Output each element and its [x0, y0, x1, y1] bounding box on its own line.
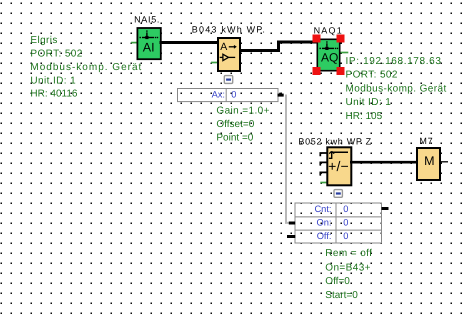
collapse button of B052 — [334, 190, 342, 198]
connector dash at right of Cnt row — [382, 207, 389, 210]
svg-text:0: 0 — [231, 90, 236, 100]
svg-text:Unit ID: 1: Unit ID: 1 — [346, 97, 392, 108]
open input hook 3 of B052 — [320, 172, 327, 175]
wire AI output to B043 input — [160, 41, 219, 44]
parameters text of B043 (Gain/Offset/Point) — [216, 105, 269, 143]
svg-text:A: A — [220, 41, 227, 53]
parameters text of B052 (Rem/On/Off/Start) — [325, 248, 372, 301]
block label NAQ1 (on white background) — [310, 25, 345, 36]
parameter stub (green) of B043 — [211, 62, 218, 64]
selection handle bottom-right of NAQ1 — [337, 67, 345, 75]
connector dash at left of On row — [289, 222, 295, 225]
output stub (green) of NAQ1 — [341, 52, 349, 54]
selection handle bottom-left of NAQ1 — [313, 67, 321, 75]
open input hook 1 of B052 — [320, 153, 327, 156]
output stub of M7 — [441, 161, 448, 163]
svg-text:HR: 40116: HR: 40116 — [30, 89, 78, 100]
selection handle top-right of NAQ1 — [337, 35, 345, 43]
svg-text:On:: On: — [317, 218, 332, 228]
analog amplifier block B043 — [218, 38, 240, 71]
analog network input block NAI5 — [137, 28, 160, 59]
svg-text:Offset=0: Offset=0 — [216, 119, 254, 130]
svg-text:0: 0 — [343, 231, 348, 241]
svg-text:PORT: 502: PORT: 502 — [30, 49, 82, 60]
svg-text:On=B43+: On=B43+ — [325, 263, 371, 274]
svg-text:Off:: Off: — [317, 231, 332, 241]
connector dash at left of Off row — [287, 235, 295, 238]
input stub (green) of AI NAI5 — [131, 42, 138, 44]
svg-text:Rem = off: Rem = off — [325, 248, 372, 259]
svg-text:HR: 105: HR: 105 — [346, 111, 383, 122]
parameter box Ax of B043 — [178, 89, 279, 102]
svg-text:AQ: AQ — [321, 50, 338, 64]
svg-text:IP: 192.168.178.63: IP: 192.168.178.63 — [346, 56, 442, 67]
svg-text:AI: AI — [143, 41, 155, 55]
connector dash at right of Ax box — [278, 94, 284, 97]
flag (marker) block M7 — [417, 148, 440, 180]
svg-text:B052 kwh WP Z: B052 kwh WP Z — [298, 137, 371, 147]
svg-text:Elgris: Elgris — [30, 35, 57, 46]
wire B052 output to M7 input — [350, 161, 418, 164]
collapse button of B043 — [224, 76, 232, 84]
reference line from Ax to On parameter — [286, 95, 290, 223]
svg-text:Cnt:: Cnt: — [314, 204, 331, 214]
svg-text:Gain =1.0+: Gain =1.0+ — [216, 105, 269, 116]
svg-text:M7: M7 — [419, 136, 433, 146]
svg-text:0: 0 — [343, 204, 348, 214]
svg-text:Off=0: Off=0 — [325, 276, 350, 287]
svg-text:NAI5.: NAI5. — [134, 14, 160, 24]
svg-text:Modbus-komp. Gerät: Modbus-komp. Gerät — [30, 62, 142, 73]
svg-text:B043 kWh WP.: B043 kWh WP. — [192, 24, 266, 34]
parameter box Cnt/On/Off of B052 — [295, 203, 382, 243]
parameter stub (green) of B052 — [320, 182, 327, 184]
svg-text:PORT: 502: PORT: 502 — [346, 70, 398, 81]
svg-text:Ax:: Ax: — [212, 90, 225, 100]
svg-text:M: M — [424, 154, 434, 168]
open input hook 2 of B052 — [320, 162, 327, 165]
selection handle top-left of NAQ1 — [313, 35, 321, 43]
wire B043 output to NAQ1 input — [240, 42, 317, 51]
svg-text:Point =0: Point =0 — [216, 133, 253, 144]
svg-text:Modbus-komp. Gerät: Modbus-komp. Gerät — [346, 83, 447, 94]
up/down counter block B052 — [327, 147, 351, 185]
svg-text:Unit ID: 1: Unit ID: 1 — [30, 75, 76, 86]
properties text of NAI5 (Modbus device) — [30, 35, 142, 100]
analog network output block NAQ1 (selected) — [317, 39, 339, 70]
svg-text:+/−: +/− — [328, 158, 349, 174]
svg-text:Start=0: Start=0 — [325, 290, 358, 301]
properties text of NAQ1 (Modbus device) — [346, 56, 447, 122]
svg-text:NAQ1: NAQ1 — [314, 26, 343, 36]
svg-text:0: 0 — [343, 218, 348, 228]
